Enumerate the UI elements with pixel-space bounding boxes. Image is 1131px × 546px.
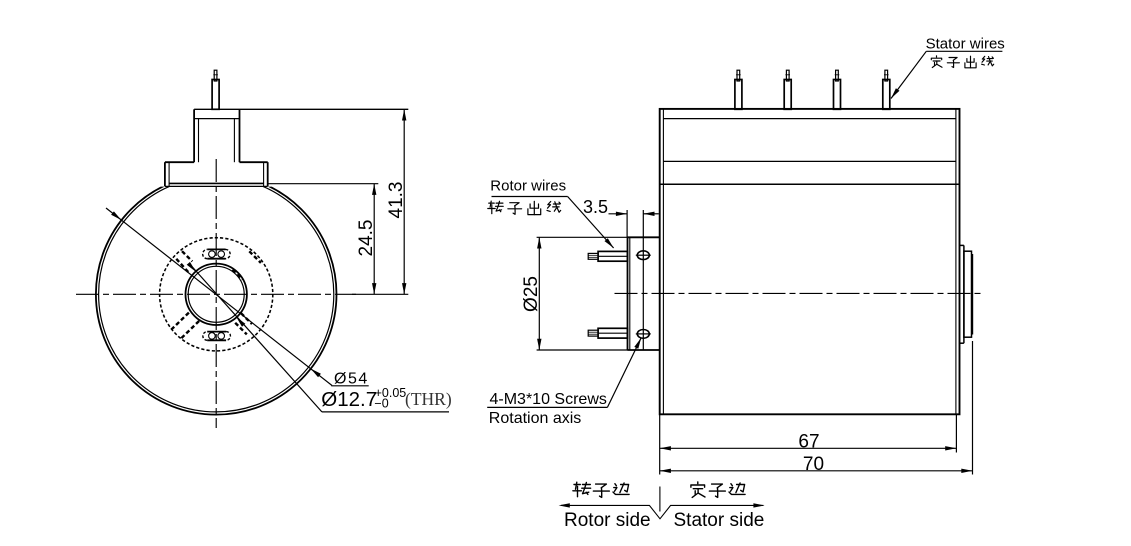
svg-text:Rotor side: Rotor side xyxy=(564,510,651,531)
svg-text:24.5: 24.5 xyxy=(356,220,377,257)
svg-text:(THR): (THR) xyxy=(405,389,452,409)
svg-text:67: 67 xyxy=(798,431,819,452)
svg-text:Ø25: Ø25 xyxy=(521,276,542,312)
svg-text:3.5: 3.5 xyxy=(583,197,608,217)
svg-text:Stator wires: Stator wires xyxy=(926,36,1005,53)
svg-text:Rotor wires: Rotor wires xyxy=(490,178,566,195)
svg-text:−0: −0 xyxy=(374,396,388,410)
svg-text:41.3: 41.3 xyxy=(386,182,407,219)
svg-text:Rotation axis: Rotation axis xyxy=(489,410,582,427)
svg-text:70: 70 xyxy=(803,454,824,475)
svg-text:4-M3*10 Screws: 4-M3*10 Screws xyxy=(490,391,607,408)
svg-text:Ø54: Ø54 xyxy=(334,370,369,387)
svg-text:Stator side: Stator side xyxy=(674,510,765,531)
svg-text:Ø12.7: Ø12.7 xyxy=(321,388,377,411)
